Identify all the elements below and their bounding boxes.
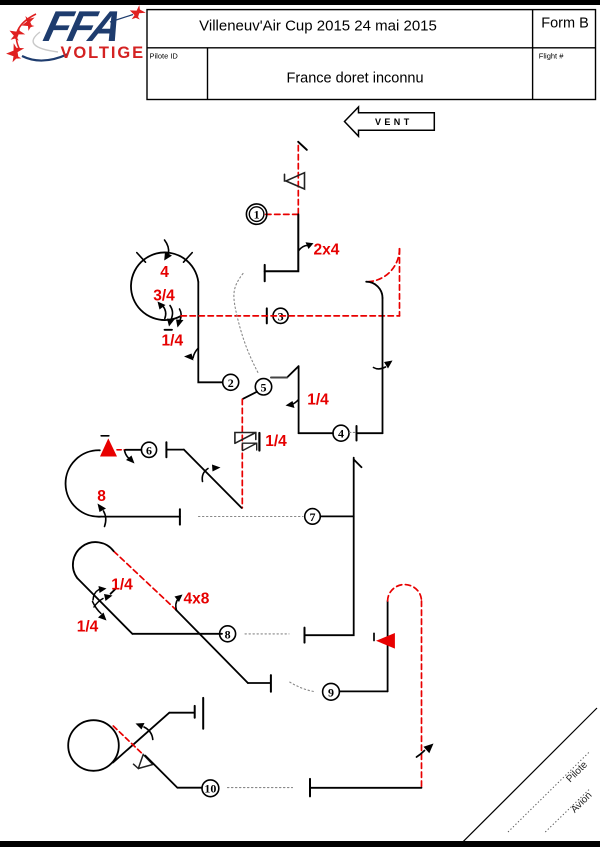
fig6 red dashed segment [117,449,126,451]
pilote dotted line [508,752,589,832]
fig5 45 down line [184,450,242,508]
fig10 red dashed exit [113,726,143,754]
fig2 down line and exit [198,282,222,382]
node 6 circled number [141,442,156,457]
fig8 45 down line with snaps [176,610,248,683]
final horizontal line [310,787,422,789]
svg-text:Flight #: Flight # [539,52,564,61]
node 2 circled number [223,374,239,390]
corner diagonal [463,708,597,842]
fig9 tailslide triangle (red) [376,633,395,649]
node 7 circled number [305,509,321,525]
top black bar [0,0,600,5]
fig5 red dashed vertical [241,399,243,508]
fig5 flick flag symbol [235,433,256,444]
logo gray swoosh [33,32,58,52]
svg-text:1/4: 1/4 [307,392,329,409]
node 1 circled number [246,204,266,224]
fig2 hesitation tick top-left [137,253,146,263]
fig8 cap arc [73,542,114,578]
logo plane upper-left [18,12,38,32]
fig7 vertical line [305,458,354,636]
fig10 loop circle [68,720,119,771]
fig8 1/4 tick on dashed line [111,588,117,594]
fig1 vertical down line [265,214,299,271]
fig3 red dashed vertical [399,249,401,316]
fig8-9 leader dots [290,682,315,692]
node 1 leader (red dashed horizontal) [266,213,299,215]
fig8 exit horizontal [248,682,270,684]
node 4 circled number [333,425,349,441]
fig2 exit arrow [193,348,198,358]
svg-text:4: 4 [338,427,344,441]
svg-text:8: 8 [97,488,106,505]
svg-text:1/4: 1/4 [77,619,99,636]
fig6 arrow near node [125,451,130,459]
node 10 leader dots [228,787,293,789]
svg-text:Villeneuv'Air Cup 2015 24 mai: Villeneuv'Air Cup 2015 24 mai 2015 [199,18,437,35]
logo navy swoosh [22,54,68,61]
svg-text:France doret inconnu: France doret inconnu [286,71,423,87]
node 5 circled number [255,379,271,395]
fig9 red dashed vertical [421,601,423,788]
fig10 entry 45 line [113,713,169,763]
fig9 triangle tick [373,633,375,640]
fig3 entry tick [266,308,268,323]
node 7 leader dots [199,516,304,518]
svg-text:3/4: 3/4 [153,288,175,305]
fig3 solid apex arc [366,282,382,298]
fig10 end bars [194,706,196,718]
fig7 link line [320,515,353,517]
fig2 3/4 arrow [163,306,166,319]
fig6 line to node [126,449,142,451]
fig6 tailslide triangle (red) [100,438,117,456]
fig3 inverted horizontal (red dashed) [181,315,400,317]
node 9 circled number [323,683,340,700]
svg-text:8: 8 [225,627,231,641]
fig3 red dashed quarter arc [367,249,400,282]
fig9 vertical up line [387,601,389,691]
fig1 spin triangle symbol [285,173,305,189]
fig4 leader dots [350,431,356,433]
svg-text:Pilote: Pilote [564,759,590,785]
fig4 top diagonal [287,366,299,377]
svg-text:5: 5 [261,380,267,394]
svg-text:1/4: 1/4 [162,333,184,350]
svg-text:4: 4 [160,264,169,281]
final line start tick [309,779,311,797]
node 8 leader dots [245,633,289,635]
fig2 hesitation tick top-right [184,253,193,263]
fig4 exit horizontal [271,377,287,379]
fig5 start tick [165,442,167,457]
logo plane bottom-left [4,41,27,63]
fig9 entry horizontal [340,690,388,692]
fig5 roll arrow [202,469,208,482]
svg-text:4x8: 4x8 [184,591,210,608]
fig8 exit tick [270,675,272,692]
node 3 circled number [273,308,288,323]
fig1 inverted entry line (red dashed vertical) [297,146,299,215]
svg-text:1/4: 1/4 [111,577,133,594]
svg-text:6: 6 [146,443,152,457]
logo red swoosh [16,14,36,50]
fig8 4x8 arrow [176,599,178,611]
node 10 circled number [202,780,219,797]
svg-text:10: 10 [204,781,216,795]
fig7 end tick [304,628,306,643]
logo line to plane [110,15,133,23]
fig6 exit horizontal [101,516,180,518]
fig7 top tick [354,460,362,468]
fig1 exit tick [264,265,266,281]
svg-text:9: 9 [328,685,334,699]
fig1 roll arrow [298,245,309,251]
svg-text:Pilote ID: Pilote ID [150,52,179,61]
logo plane mid-left [7,24,27,43]
fig2 loop circle [131,252,198,320]
fig2 1/4 down arrows [170,306,173,320]
fig9 red dashed cap [388,585,422,601]
fig10 spin triangle [134,755,153,769]
fig5 short diagonal from node [243,392,257,399]
fig5 entry horizontal [166,449,184,451]
fig8 red dashed 45 up line [114,551,176,609]
leader dotted S-curve node1-5 [234,274,259,375]
fig4 1/4 arrow [292,400,299,405]
svg-text:VENT: VENT [375,117,413,127]
svg-text:1: 1 [254,208,260,222]
fig10 top horizontal [169,712,194,714]
svg-text:Avion: Avion [569,790,594,815]
fig2 top roll arrow [165,240,169,254]
fig4 start tick [356,426,358,441]
node 8 circled number [220,626,236,642]
bottom black bar [0,841,600,847]
svg-text:2: 2 [228,376,234,390]
fig6 exit tick [179,509,181,524]
fig9 arrow on dashed line [417,751,425,758]
svg-text:2x4: 2x4 [314,242,340,259]
fig1 top start tick [298,142,307,150]
fig8 45 line lower [77,578,132,634]
fig6 triangle tick [101,435,109,437]
logo plane top-right [128,4,147,22]
svg-text:7: 7 [310,510,316,524]
fig3 roll arrow [374,367,386,369]
fig4 horizontal line [299,432,333,434]
svg-text:1/4: 1/4 [265,433,287,450]
fig8 bottom horizontal [132,633,222,635]
svg-text:VOLTIGE: VOLTIGE [61,44,146,62]
fig3 vertical down line [382,298,384,433]
fig10 exit 45 line [145,756,202,788]
fig8 up arrows [93,590,99,601]
fig6 8 arrow [104,511,106,527]
fig10 rotation arrow [144,727,153,740]
fig2 1/4 tick [165,329,173,331]
avion dotted line [545,789,589,832]
fig6 half loop arc [66,450,102,516]
svg-text:Form B: Form B [541,16,589,32]
fig4 up vertical [298,366,300,433]
fig8 down arrow [93,602,102,614]
